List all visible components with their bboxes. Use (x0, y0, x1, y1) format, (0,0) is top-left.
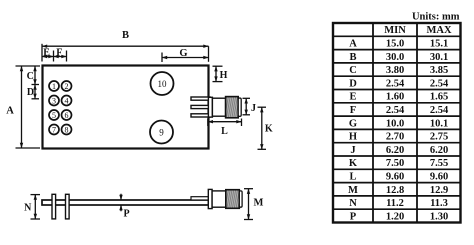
svg-text:10.1: 10.1 (430, 118, 448, 129)
svg-text:H: H (220, 70, 228, 81)
svg-text:9.60: 9.60 (386, 172, 404, 183)
svg-text:D: D (349, 78, 357, 89)
dim H (213, 66, 228, 81)
svg-text:8: 8 (65, 126, 69, 135)
side view pin 1 (52, 194, 56, 219)
svg-text:G: G (349, 118, 357, 129)
svg-text:J: J (350, 145, 355, 156)
dim B (42, 30, 209, 62)
dim L (208, 119, 242, 138)
pin 8 (62, 125, 72, 135)
svg-text:12.9: 12.9 (430, 185, 448, 196)
svg-text:2: 2 (65, 82, 69, 91)
svg-text:30.1: 30.1 (430, 52, 448, 63)
svg-text:7: 7 (52, 126, 56, 135)
dim G (162, 48, 209, 62)
svg-text:L: L (221, 126, 228, 137)
pin 4 (62, 96, 72, 106)
svg-text:P: P (350, 211, 357, 222)
svg-text:3: 3 (52, 97, 56, 106)
table row N (349, 198, 448, 209)
svg-text:11.3: 11.3 (430, 198, 448, 209)
svg-text:6.20: 6.20 (430, 145, 448, 156)
dim P (121, 194, 130, 220)
table row K (349, 158, 448, 169)
side view pin 2 (66, 194, 70, 219)
side view SMA body (212, 191, 226, 207)
top view PCB outline (43, 66, 209, 149)
table row L (349, 172, 448, 183)
svg-text:9: 9 (159, 128, 164, 138)
table row A (349, 39, 448, 50)
pin 6 (62, 110, 72, 120)
svg-text:P: P (123, 209, 129, 220)
table row E (349, 92, 448, 103)
SMA pin bottom (top view) (191, 114, 210, 117)
svg-text:9.60: 9.60 (430, 172, 448, 183)
side view SMA pin bar (191, 197, 209, 200)
svg-text:K: K (265, 124, 273, 135)
svg-text:N: N (349, 198, 357, 209)
table header row (384, 25, 452, 36)
svg-text:2.54: 2.54 (386, 78, 405, 89)
SMA pin top (top view) (191, 97, 210, 100)
side view SMA flange (208, 189, 212, 208)
pin 3 (49, 96, 59, 106)
svg-text:B: B (349, 52, 356, 63)
svg-text:C: C (27, 71, 34, 82)
svg-text:M: M (254, 198, 264, 209)
mounting hole 10 (151, 72, 174, 95)
pin 5 (49, 110, 59, 120)
dim K (258, 107, 273, 149)
table row P (350, 211, 448, 222)
mounting hole 9 (150, 121, 173, 144)
table row C (349, 65, 448, 76)
svg-text:G: G (179, 48, 187, 59)
pin 2 (62, 81, 72, 91)
SMA pin middle (top view) (191, 105, 210, 108)
pin 1 (49, 81, 59, 91)
svg-text:1.30: 1.30 (430, 211, 448, 222)
svg-text:1.20: 1.20 (386, 211, 404, 222)
svg-text:2.54: 2.54 (430, 78, 449, 89)
svg-text:K: K (349, 158, 358, 169)
svg-text:1.65: 1.65 (430, 92, 448, 103)
svg-text:C: C (349, 65, 357, 76)
svg-text:7.55: 7.55 (430, 158, 448, 169)
svg-text:15.0: 15.0 (386, 39, 404, 50)
SMA knurled barrel (top view) (226, 97, 239, 118)
dim C (27, 66, 39, 85)
svg-text:3.85: 3.85 (430, 65, 448, 76)
dim A (6, 66, 40, 148)
svg-text:A: A (6, 106, 14, 117)
svg-text:H: H (349, 132, 357, 143)
dim N (24, 195, 40, 219)
table row H (349, 132, 448, 143)
svg-text:E: E (43, 47, 50, 58)
svg-text:11.2: 11.2 (386, 198, 404, 209)
svg-text:4: 4 (65, 97, 69, 106)
svg-text:F: F (56, 47, 62, 58)
svg-text:D: D (27, 87, 34, 98)
svg-text:N: N (24, 203, 32, 214)
svg-text:6.20: 6.20 (386, 145, 404, 156)
svg-text:B: B (122, 30, 129, 41)
svg-text:2.54: 2.54 (430, 105, 449, 116)
SMA end cap (top view) (238, 98, 241, 116)
svg-text:2.54: 2.54 (386, 105, 405, 116)
table row B (349, 52, 448, 63)
svg-text:15.1: 15.1 (430, 39, 448, 50)
table row G (349, 118, 448, 129)
svg-text:2.70: 2.70 (386, 132, 404, 143)
SMA flange (top view) (208, 97, 212, 117)
dim F (54, 47, 67, 61)
pin 7 (49, 125, 59, 135)
svg-text:12.8: 12.8 (386, 185, 404, 196)
svg-text:Units: mm: Units: mm (412, 12, 460, 23)
table row D (349, 78, 449, 89)
svg-text:1: 1 (52, 82, 56, 91)
table row M (348, 185, 448, 196)
svg-text:J: J (251, 103, 256, 114)
svg-text:E: E (349, 92, 356, 103)
dim M (244, 189, 264, 220)
svg-text:1.60: 1.60 (386, 92, 404, 103)
SMA body (top view) (212, 98, 225, 116)
dim D (27, 85, 39, 99)
dim J (243, 98, 257, 115)
svg-text:L: L (349, 172, 356, 183)
svg-text:7.50: 7.50 (386, 158, 404, 169)
svg-text:M: M (348, 185, 358, 196)
svg-text:3.80: 3.80 (386, 65, 404, 76)
dimension table frame (333, 23, 461, 223)
svg-text:10: 10 (158, 79, 168, 89)
side view SMA end cap (239, 191, 242, 207)
svg-text:10.0: 10.0 (386, 118, 404, 129)
table row F (350, 105, 449, 116)
table row J (350, 145, 448, 156)
svg-text:2.75: 2.75 (430, 132, 448, 143)
svg-text:MAX: MAX (426, 25, 451, 36)
dim E (42, 47, 54, 61)
svg-text:MIN: MIN (384, 25, 406, 36)
svg-text:F: F (350, 105, 356, 116)
svg-text:5: 5 (52, 111, 56, 120)
side view SMA knurled barrel (226, 190, 240, 209)
svg-text:30.0: 30.0 (386, 52, 404, 63)
side view board (42, 200, 209, 205)
svg-text:A: A (349, 39, 357, 50)
svg-text:6: 6 (65, 111, 69, 120)
